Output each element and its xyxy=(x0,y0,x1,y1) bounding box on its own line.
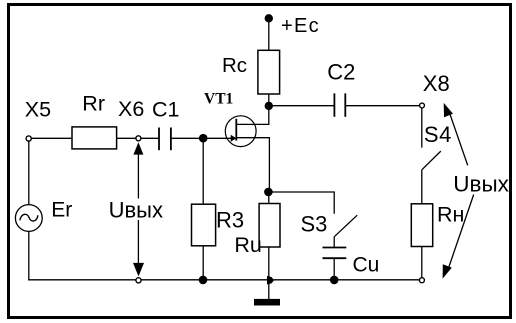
wire node to C2 xyxy=(269,105,335,107)
label Uvyh left xyxy=(106,197,164,222)
terminal X8 xyxy=(420,103,425,108)
resistor Rc xyxy=(258,50,280,94)
transistor VT1 xyxy=(225,109,269,192)
node drain junction xyxy=(265,102,273,110)
svg-text:Rc: Rc xyxy=(222,54,247,77)
resistor Rr xyxy=(72,127,117,149)
resistor R3 xyxy=(192,204,216,246)
wire Ru bottom lead xyxy=(268,247,270,280)
resistor Ru xyxy=(259,204,280,248)
svg-text:R3: R3 xyxy=(216,208,244,233)
terminal X6 xyxy=(136,136,141,141)
svg-text:Uвых: Uвых xyxy=(109,197,163,222)
switch S4 xyxy=(422,108,441,204)
resistor Rn xyxy=(411,204,432,247)
wire R3 top lead xyxy=(202,138,204,204)
svg-text:Cu: Cu xyxy=(353,254,380,277)
wire Rc to drain node xyxy=(268,94,270,106)
wire X5 down to Er xyxy=(28,142,30,205)
wire C1 to gate node xyxy=(171,137,203,139)
terminal +Ec dot xyxy=(265,14,273,22)
svg-text:S4: S4 xyxy=(424,122,452,147)
svg-text:Er: Er xyxy=(51,199,72,222)
terminal output bottom right xyxy=(419,278,424,283)
arrow Uvyh right upper xyxy=(444,103,468,165)
capacitor C2 xyxy=(334,93,345,116)
svg-text:C2: C2 xyxy=(327,59,355,84)
wire C2 to X8 xyxy=(345,105,419,107)
wire Rr to X6 xyxy=(117,137,136,139)
node source junction xyxy=(264,188,273,197)
svg-text:Rн: Rн xyxy=(437,203,464,227)
ground xyxy=(254,299,280,306)
wire Ru top lead xyxy=(268,192,270,204)
wire source node to S3 branch xyxy=(268,192,334,214)
svg-text:X8: X8 xyxy=(423,71,450,96)
wire bottom rail xyxy=(141,279,420,281)
svg-text:Ru: Ru xyxy=(234,233,261,257)
svg-text:+Ec: +Ec xyxy=(281,15,320,37)
wire Rn to bottom terminal xyxy=(421,247,423,278)
wire X6 to C1 xyxy=(141,137,159,139)
wire Cu to bottom xyxy=(333,258,335,280)
wire R3 bottom lead xyxy=(202,246,204,280)
svg-text:C1: C1 xyxy=(152,97,179,121)
capacitor C1 xyxy=(159,128,171,151)
node R3 bottom junction xyxy=(199,276,208,285)
svg-text:X5: X5 xyxy=(25,98,51,122)
node Cu bottom junction xyxy=(330,276,339,285)
wire Er to bottom rail xyxy=(29,231,136,279)
wire X5 to Rr xyxy=(31,137,72,139)
node gate junction xyxy=(199,134,208,143)
source Er xyxy=(15,205,42,232)
wire gate lead with arrow xyxy=(203,135,236,142)
capacitor Cu xyxy=(323,248,347,259)
svg-text:S3: S3 xyxy=(301,212,328,237)
wire +Ec to Rc xyxy=(268,18,270,50)
arrow Uvyh left measurement xyxy=(133,142,144,276)
svg-text:Uвых: Uвых xyxy=(453,172,509,197)
svg-text:VT1: VT1 xyxy=(204,90,233,107)
wire ground stub xyxy=(268,280,270,299)
svg-text:Rr: Rr xyxy=(82,91,105,115)
arrow Uvyh right lower xyxy=(443,195,474,279)
terminal output bottom left xyxy=(136,278,141,283)
node Ru bottom junction xyxy=(267,276,274,285)
svg-text:X6: X6 xyxy=(118,97,144,121)
terminal X5 xyxy=(26,136,31,141)
switch S3 xyxy=(334,215,357,248)
